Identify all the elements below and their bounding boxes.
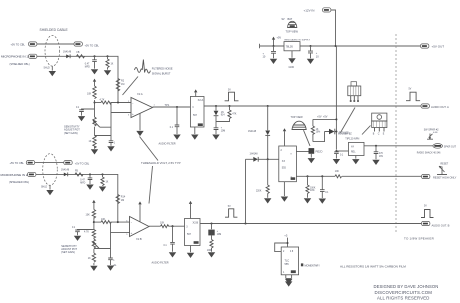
wire op-amp supply stub <box>138 201 141 221</box>
wire X2 output <box>149 225 161 227</box>
svg-text:MFD: MFD <box>80 182 85 184</box>
connector J4 +5V out <box>421 44 445 49</box>
wire mic1 line <box>37 56 118 102</box>
wire signal A main <box>204 105 421 107</box>
node +5V arrow <box>272 36 282 46</box>
svg-text:10%: 10% <box>310 190 315 192</box>
svg-text:1N4148: 1N4148 <box>248 131 257 133</box>
node OR junction <box>267 158 269 160</box>
wire speaker output <box>364 145 433 147</box>
svg-text:TIP120 NPN: TIP120 NPN <box>345 138 359 141</box>
ground <box>91 149 98 154</box>
svg-text:1N4148: 1N4148 <box>61 170 70 172</box>
wire U4 output <box>296 175 421 177</box>
ground <box>91 69 98 74</box>
wire shield ground 2 <box>41 185 50 189</box>
wire cbl power 1 <box>37 43 74 45</box>
svg-text:X2:A: X2:A <box>198 98 204 102</box>
ground <box>173 135 180 140</box>
wire U2 +5V stub <box>194 89 197 96</box>
node junction on rail <box>334 45 336 47</box>
capacitor C13 <box>320 175 329 198</box>
resistor R6 1K <box>89 136 97 149</box>
svg-text:9V BAT: 9V BAT <box>282 17 293 21</box>
ground <box>333 159 340 164</box>
svg-text:10K: 10K <box>87 93 92 96</box>
node signal A tap <box>267 105 269 107</box>
svg-text:10M: 10M <box>217 234 222 236</box>
ground <box>49 71 56 76</box>
wire wiper loop 1 <box>95 103 112 136</box>
wire op-amp ground stub <box>139 113 141 130</box>
label sensitivity pot 1 <box>64 125 80 135</box>
label momentary <box>301 263 320 267</box>
resistor R4 10K <box>87 86 96 99</box>
resistor R16 4.7K <box>94 218 130 224</box>
svg-text:1K: 1K <box>111 64 114 66</box>
svg-text:+5V TO CBL: +5V TO CBL <box>10 161 25 165</box>
op-amp U1a <box>128 92 156 117</box>
ground <box>270 59 277 64</box>
connector J1c microphone 1 <box>1 54 37 66</box>
svg-text:SIGNAL BURST: SIGNAL BURST <box>152 72 171 76</box>
wire wiper loop 2 <box>94 222 111 248</box>
resistor R3 <box>106 55 114 69</box>
connector J2a <box>10 161 35 166</box>
wire +5V rail <box>260 44 421 49</box>
svg-text:RADIO SHACK 40-246: RADIO SHACK 40-246 <box>417 151 441 154</box>
resistor R17 <box>84 230 96 239</box>
resistor R15 10K <box>86 210 96 219</box>
svg-text:3W SPKR #2: 3W SPKR #2 <box>424 129 439 132</box>
op-amp U2 box <box>190 97 204 128</box>
svg-text:5V: 5V <box>228 90 231 92</box>
ground <box>264 198 271 203</box>
svg-text:+5V TO CBL: +5V TO CBL <box>75 161 90 165</box>
wire X1 output <box>153 106 191 108</box>
svg-text:MOMENTARY: MOMENTARY <box>305 264 321 267</box>
svg-text:+12V IN: +12V IN <box>304 9 315 13</box>
connector J7 reset <box>422 174 457 179</box>
wire led loop <box>313 119 337 141</box>
ground <box>288 58 295 63</box>
resistor R14 1M <box>116 195 126 204</box>
svg-text:MFD: MFD <box>85 66 90 68</box>
node bias junction 1 <box>93 101 95 103</box>
label sensitivity pot 2 <box>61 244 77 254</box>
svg-text:+5V TO CBL: +5V TO CBL <box>11 43 26 47</box>
svg-text:5V: 5V <box>228 206 231 208</box>
ground <box>90 266 97 271</box>
svg-text:10M: 10M <box>221 130 226 132</box>
annotation reset glyph <box>437 164 449 175</box>
op-amp U3 box <box>185 219 201 246</box>
svg-text:16V: 16V <box>379 156 384 158</box>
svg-text:REGULATED 5V SUPPLY: REGULATED 5V SUPPLY <box>285 39 311 42</box>
diode D6 <box>61 170 70 177</box>
ground <box>169 252 176 257</box>
wire +5V drop column <box>335 46 337 150</box>
connector J2b <box>64 161 90 166</box>
resistor R10 100K <box>306 175 316 198</box>
svg-text:MICROPHONE IN 2: MICROPHONE IN 2 <box>1 173 28 177</box>
ground <box>187 253 194 258</box>
wire U2 ground stub <box>194 127 196 134</box>
svg-text:AUDIO OUT. B: AUDIO OUT. B <box>432 223 450 227</box>
wire op-amp plus input 2 <box>111 232 130 234</box>
svg-text:(SET GAIN): (SET GAIN) <box>61 250 75 254</box>
capacitor C15 <box>374 145 384 160</box>
svg-text:555: 555 <box>282 167 287 170</box>
svg-text:100K: 100K <box>207 250 213 252</box>
svg-text:10K: 10K <box>101 218 106 221</box>
svg-text:10K: 10K <box>160 221 165 224</box>
battery B1 <box>282 17 299 34</box>
wire cable ellipse 2 <box>43 154 58 186</box>
svg-text:555: 555 <box>285 263 290 266</box>
svg-text:4.7K: 4.7K <box>100 99 105 102</box>
wire 555 trigger loop <box>275 243 288 252</box>
op-amp U4 box <box>279 146 297 182</box>
connector J1a <box>11 42 37 47</box>
svg-text:1M: 1M <box>121 83 124 86</box>
svg-text:+5V: +5V <box>277 36 282 40</box>
capacitor C11 <box>308 45 319 58</box>
op-amp U7 driver box <box>349 142 365 155</box>
label credits <box>374 284 439 301</box>
ground <box>212 135 219 140</box>
svg-text:SHLD: SHLD <box>44 68 50 70</box>
svg-text:10K: 10K <box>335 171 340 173</box>
svg-text:MICROPHONE IN 1: MICROPHONE IN 1 <box>1 55 28 59</box>
wire shield ground 1 <box>44 66 53 71</box>
svg-text:ALL RESISTORS 1/8 WATT 5% CARB: ALL RESISTORS 1/8 WATT 5% CARBON FILM <box>340 265 406 269</box>
ground <box>372 160 379 165</box>
svg-text:1K: 1K <box>88 257 91 260</box>
resistor R7 47K <box>216 105 237 122</box>
capacitor C14 <box>334 150 348 159</box>
svg-text:+: + <box>132 112 134 116</box>
connector J6 audio out B <box>422 221 450 227</box>
svg-text:SHLD: SHLD <box>41 187 47 189</box>
svg-text:RESET: RESET <box>441 164 449 166</box>
transistor Q1 TIP120 <box>372 113 387 136</box>
capacitor C7 <box>72 227 94 235</box>
speaker element SP1 <box>296 148 322 154</box>
inductor L1 <box>77 52 85 58</box>
wire callout to TIP120 <box>362 126 371 135</box>
svg-text:AUDIO OUT. A: AUDIO OUT. A <box>431 105 449 109</box>
svg-text:1K: 1K <box>89 140 92 143</box>
svg-text:X2:B: X2:B <box>193 220 199 224</box>
svg-text:1K: 1K <box>316 129 319 131</box>
svg-text:SPKR OUT: SPKR OUT <box>444 146 457 149</box>
svg-text:PIEZO: PIEZO <box>316 152 323 154</box>
svg-text:+: + <box>131 231 133 235</box>
connector J2c microphone 2 <box>1 172 36 184</box>
svg-text:+5V OUT: +5V OUT <box>432 45 445 49</box>
svg-text:5V: 5V <box>409 89 412 91</box>
capacitor C3 <box>109 136 116 146</box>
pulse icon P2 <box>225 206 237 217</box>
ground <box>281 197 288 202</box>
diode D3 <box>248 106 270 159</box>
wire mic2 line <box>36 174 118 222</box>
ground <box>74 236 81 241</box>
capacitor C6 <box>80 173 92 184</box>
diode D2 <box>214 105 226 128</box>
capacitor C12 electrolytic <box>208 222 221 239</box>
capacitor C9 <box>164 225 175 252</box>
wire U3 ground stub <box>190 246 192 253</box>
connector J1b <box>74 42 100 48</box>
svg-text:MOUSER BZ: MOUSER BZ <box>338 134 352 136</box>
svg-text:-: - <box>131 221 132 225</box>
svg-text:AUDIO FILTER: AUDIO FILTER <box>159 142 176 145</box>
wire U3 +5V stub <box>189 201 192 219</box>
svg-text:THRESHOLD VOLT, 2.5V TYP: THRESHOLD VOLT, 2.5V TYP <box>141 161 181 165</box>
svg-text:TOP VIEW: TOP VIEW <box>286 30 299 34</box>
svg-text:1N: 1N <box>221 112 224 114</box>
wire 555 supply <box>287 238 289 247</box>
resistor R11 10K <box>335 171 342 178</box>
inductor L2 <box>75 170 83 176</box>
ground <box>307 59 314 64</box>
ground <box>319 199 326 204</box>
op-amp U6 555 box <box>281 247 298 275</box>
capacitor C1 <box>85 55 97 68</box>
svg-text:TOP VIEW: TOP VIEW <box>291 116 304 119</box>
node +5V arrow <box>93 79 96 82</box>
svg-text:4.7K: 4.7K <box>84 231 89 234</box>
svg-text:X1:B: X1:B <box>136 237 142 241</box>
svg-text:DISCOVERCIRCUITS.COM: DISCOVERCIRCUITS.COM <box>375 290 433 295</box>
pulse icon P3 <box>406 89 420 101</box>
svg-text:1N4148: 1N4148 <box>250 154 259 156</box>
ground <box>46 190 53 195</box>
ground <box>78 116 85 121</box>
svg-text:GND: GND <box>289 66 295 69</box>
svg-text:1N4148: 1N4148 <box>63 52 72 54</box>
node 1M join 2 <box>117 221 119 223</box>
svg-text:X1:A: X1:A <box>137 92 143 96</box>
svg-text:4-8Ω: 4-8Ω <box>433 132 438 134</box>
svg-text:567: 567 <box>187 233 192 236</box>
ground <box>352 159 359 164</box>
svg-text:0.47: 0.47 <box>85 64 90 66</box>
ground <box>86 185 93 190</box>
resistor R8 220K <box>256 159 269 198</box>
svg-text:RESET HIGH ONLY: RESET HIGH ONLY <box>433 176 457 180</box>
annotation noise waveform W1 <box>135 60 173 76</box>
ground <box>285 279 292 284</box>
annotation buzzer package <box>348 82 361 102</box>
wire callout to speaker element <box>304 130 311 146</box>
ground <box>191 135 198 140</box>
wire bias column 1 <box>94 81 96 148</box>
wire callout to buzzer <box>341 108 356 133</box>
ground <box>304 198 311 203</box>
svg-text:220K: 220K <box>256 191 262 193</box>
wire U4 ground stub <box>283 182 285 196</box>
svg-text:DESIGNED BY DAVE JOHNSON: DESIGNED BY DAVE JOHNSON <box>374 284 439 289</box>
annotation speaker note <box>424 129 439 140</box>
svg-text:+5V +5V: +5V +5V <box>317 116 328 119</box>
node loop tap <box>335 118 337 120</box>
ground <box>107 266 114 271</box>
node +5V arrow <box>92 200 95 203</box>
svg-text:REL: REL <box>351 152 356 154</box>
wire signal B main <box>200 223 422 225</box>
wire OR vertical <box>245 159 247 223</box>
wire regulator ground <box>291 51 293 58</box>
ground <box>104 70 111 75</box>
wire speaker ground stub <box>310 154 312 158</box>
diode D1 <box>63 52 72 59</box>
svg-text:5V: 5V <box>424 206 427 208</box>
resistor R20 100K <box>207 240 213 252</box>
svg-text:TP1: TP1 <box>165 103 170 107</box>
pulse icon P1 <box>225 90 239 101</box>
wire 555 ground stubs <box>286 275 292 279</box>
svg-text:0.47: 0.47 <box>80 180 85 182</box>
svg-text:FILTERED NOISE: FILTERED NOISE <box>152 67 173 71</box>
resistor R13 <box>101 173 109 186</box>
ground <box>308 158 315 163</box>
connector J8 speaker oval <box>433 144 457 149</box>
svg-text:78L05: 78L05 <box>286 45 294 49</box>
node bias junction 2 <box>93 221 95 223</box>
node 1M join <box>117 101 119 103</box>
resistor R9 1K <box>311 126 320 134</box>
connector J3 +12V input <box>304 8 336 46</box>
svg-text:10%: 10% <box>316 132 321 134</box>
LED D5 <box>329 129 349 135</box>
svg-text:SHIELDED CABLE: SHIELDED CABLE <box>40 28 69 32</box>
capacitor C8 <box>108 249 115 266</box>
capacitor C5 <box>214 128 226 134</box>
svg-text:AUDIO FILTER: AUDIO FILTER <box>152 261 169 264</box>
annotation threshold <box>140 137 181 204</box>
svg-text:(SET GAIN): (SET GAIN) <box>64 131 78 135</box>
diode D4 <box>246 154 279 162</box>
capacitor C2 <box>76 107 95 116</box>
svg-text:10K: 10K <box>86 213 91 216</box>
connector J5 audio out A <box>421 104 449 109</box>
wire U4 +5V stub <box>283 128 286 146</box>
capacitor C4 <box>170 106 180 134</box>
svg-text:FB: FB <box>75 170 78 172</box>
potentiometer P2 <box>92 239 99 249</box>
wire bias column 2 <box>93 203 95 266</box>
op-amp U1b <box>126 217 149 241</box>
svg-text:567: 567 <box>193 114 198 117</box>
ground <box>99 187 106 192</box>
svg-text:47K: 47K <box>232 114 237 116</box>
svg-text:TO 1/8W SPEAKER: TO 1/8W SPEAKER <box>404 236 435 240</box>
resistor R2 1M <box>116 79 124 91</box>
ground <box>208 252 215 257</box>
resistor R5 4.7K <box>95 99 132 104</box>
regulator U5 78L05 <box>284 39 311 69</box>
svg-text:1M: 1M <box>121 199 124 202</box>
wire dashed separator <box>395 34 397 232</box>
annotation piezo top view <box>291 116 307 130</box>
potentiometer P1 <box>93 117 100 127</box>
wire callout to waveform <box>123 77 139 96</box>
svg-text:100K: 100K <box>310 187 316 189</box>
pulse icon P4 <box>421 206 434 218</box>
resistor R18 1K <box>88 253 96 262</box>
node wire3 OR junction <box>244 222 246 224</box>
svg-text:(SHIELDED CBL): (SHIELDED CBL) <box>10 62 30 66</box>
resistor R19 10K <box>160 221 185 227</box>
capacitor C10 <box>263 45 277 59</box>
svg-text:+5: +5 <box>284 234 288 238</box>
svg-text:(SHIELDED CBL): (SHIELDED CBL) <box>9 180 29 184</box>
wire cable ellipse 1 <box>45 36 60 67</box>
wire op-amp plus input 1 <box>111 112 131 114</box>
wire U7 ground stub <box>355 156 357 159</box>
svg-text:ALL RIGHTS RESERVED: ALL RIGHTS RESERVED <box>377 296 430 301</box>
ground <box>107 146 114 151</box>
svg-text:+5V TO CBL: +5V TO CBL <box>85 44 100 48</box>
wire cbl power 2 <box>35 162 64 164</box>
svg-text:FB: FB <box>77 52 80 54</box>
svg-text:-: - <box>132 102 133 106</box>
svg-text:1K: 1K <box>106 182 109 184</box>
ground <box>136 131 143 136</box>
